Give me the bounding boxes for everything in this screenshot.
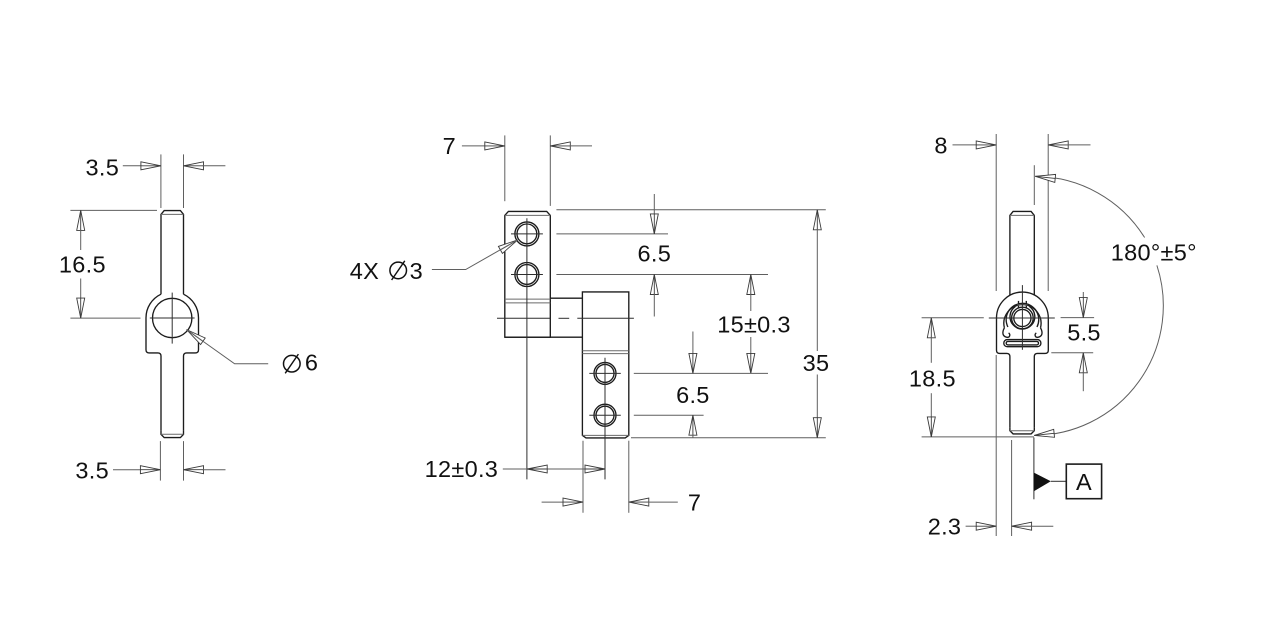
svg-text:6: 6 — [305, 349, 318, 375]
svg-text:3: 3 — [410, 258, 423, 284]
front view: hinge pin axis centreline — [497, 317, 550, 319]
side view: clip left hook — [1003, 328, 1010, 337]
front view: vertical centreline through upper holes / ext for 12+-0.3 — [526, 218, 528, 479]
dim 7 top: extension lines — [504, 135, 506, 201]
angle 180 deg: arc with end arrows — [1035, 176, 1144, 237]
leader dia 6: diameter symbol and value — [284, 355, 301, 372]
side view: clip bottom strip — [1004, 340, 1041, 347]
dim 8: dimension line with opposed arrows — [953, 144, 978, 146]
ext line from lower plate bottom edge — [631, 437, 826, 439]
svg-text:8: 8 — [934, 132, 947, 158]
svg-text:15±0.3: 15±0.3 — [717, 311, 791, 337]
ext line from hole 2 centre — [556, 274, 768, 276]
front view: centre marks of lower holes — [589, 372, 621, 374]
front view: knuckle edge joining the two plates — [550, 297, 582, 299]
side view: clip right hook — [1035, 328, 1042, 337]
dim 6.5 lower: outside arrows and value text — [692, 332, 694, 355]
dim 3.5 bottom-left: extension lines — [159, 441, 161, 481]
left view: pin hole circle dia 6 — [153, 298, 192, 337]
dim 35: dimension line with inside arrows — [813, 210, 821, 230]
dim 7 bottom: extension lines — [582, 441, 584, 513]
front view: knuckle tangent lines on upper plate — [505, 298, 551, 300]
svg-text:5.5: 5.5 — [1067, 320, 1101, 346]
datum A: frame box — [1066, 464, 1101, 499]
svg-text:3.5: 3.5 — [75, 457, 109, 483]
dim 18.5: extension lines — [922, 317, 984, 319]
dim 8: extension lines down to knuckle — [995, 134, 997, 291]
front view: lower plate outline with chamfered bottom corners — [582, 292, 628, 438]
svg-text:180°±5°: 180°±5° — [1111, 240, 1197, 266]
front view: bottom edge of upper plate extending to lower plate — [505, 336, 583, 338]
dim 7 bottom: dimension line with opposed arrows — [542, 501, 564, 503]
leader 4X dia 3: arrow and bent leader line — [498, 240, 517, 254]
side view: lower bar end chamfer — [1010, 427, 1034, 434]
dim 5.5: outside arrows — [1082, 292, 1084, 299]
dim 15+-0.3: dimension line with inside arrows — [747, 275, 755, 295]
front view: vertical centreline through lower holes / ext for 12+-0.3 — [604, 358, 606, 480]
side view: pin hole circle — [1014, 309, 1031, 326]
svg-text:7: 7 — [688, 490, 701, 516]
dim 6.5 upper: outside arrows and value text — [653, 194, 655, 215]
side view: spring clip inner arc — [1006, 303, 1039, 327]
svg-text:16.5: 16.5 — [59, 252, 106, 278]
dim 16.5 left: extension lines — [70, 209, 157, 211]
side view: spring clip outer arc — [1004, 305, 1041, 328]
svg-text:A: A — [1076, 469, 1092, 495]
side view: pin bushing outer circle — [1012, 307, 1034, 329]
side view: clip slot at top — [1018, 301, 1020, 308]
svg-text:18.5: 18.5 — [909, 365, 956, 391]
angle 180 deg: extension line above bar — [1033, 165, 1035, 205]
dim 5.5: extension lines — [1061, 317, 1095, 319]
left view: part outline - lower bar end chamfer — [161, 431, 184, 438]
dim 3.5 bottom-left: dimension line with opposed arrows — [113, 469, 141, 471]
ext line from hole 3 centre — [634, 372, 768, 374]
side view: knuckle outer dome and stepped sides — [997, 292, 1049, 318]
ext line from hole 1 centre — [556, 233, 668, 235]
front view: upper mounting hole 2 dia 3 — [515, 263, 539, 287]
svg-text:6.5: 6.5 — [638, 241, 672, 267]
svg-text:2.3: 2.3 — [928, 514, 962, 540]
front view: lower mounting hole 3 dia 3 — [594, 362, 616, 384]
datum A: filled triangle — [1034, 473, 1051, 492]
datum A: extension line from bar face — [1033, 438, 1035, 500]
dim 16.5 left: vertical dimension line with arrows — [77, 210, 85, 230]
ext line from plate top edge for dims 6.5 and 35 — [556, 209, 825, 211]
dim 3.5 top-left: dimension line with opposed arrows — [123, 165, 142, 167]
side view: pin centre mark — [989, 317, 1055, 319]
front view: lower mounting hole 4 dia 3 — [594, 404, 616, 426]
leader dia 6: arrow and bent leader line — [187, 330, 206, 345]
left view: hole centre mark — [150, 317, 195, 319]
dim 3.5 top-left: extension lines — [160, 154, 162, 208]
side view: upper bar shank — [1010, 211, 1034, 295]
front view: upper mounting hole 1 dia 3 — [515, 222, 539, 246]
dim 7 top: dimension line with opposed arrows — [462, 145, 486, 147]
dim 2.3: extension lines — [995, 355, 997, 536]
dim 2.3: dimension line with opposed arrows — [966, 525, 977, 527]
svg-text:6.5: 6.5 — [676, 382, 710, 408]
left view: part outline - boss (round hub) with stepped base — [146, 294, 161, 431]
front view: centre marks of upper holes — [511, 233, 543, 235]
left view: part outline - upper bar shank — [161, 211, 184, 295]
ext line from hole 4 centre — [634, 414, 704, 416]
side view: clip bore arc — [1010, 306, 1035, 329]
datum A: connector line — [1051, 480, 1067, 482]
front view: upper plate outline with chamfered top corners — [505, 211, 551, 337]
dim 12+-0.3: dimension line with inside-out arrows — [503, 468, 605, 470]
svg-text:12±0.3: 12±0.3 — [425, 456, 499, 482]
dim 18.5: dimension line with inside arrows — [927, 318, 935, 338]
svg-text:7: 7 — [443, 133, 456, 159]
svg-text:35: 35 — [803, 350, 830, 376]
front view: knuckle tangent lines on lower plate — [582, 350, 628, 352]
svg-text:4X: 4X — [350, 258, 379, 284]
svg-text:3.5: 3.5 — [86, 154, 120, 180]
